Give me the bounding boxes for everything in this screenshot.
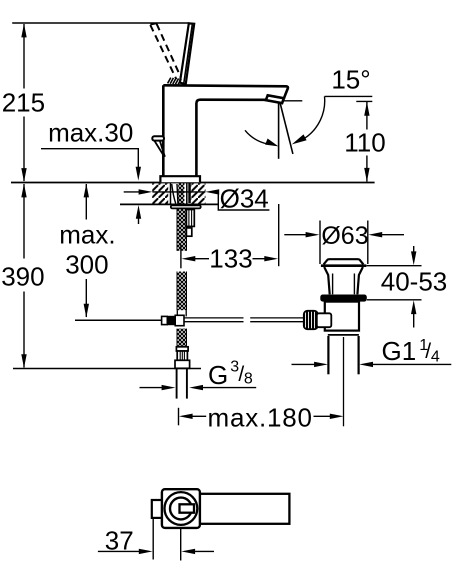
knob connector [317,313,332,327]
angle arc to vertical datum [245,130,278,146]
dimension 133 (spout projection) [181,204,279,273]
label 15 deg with underline [325,65,373,97]
svg-text:390: 390 [1,262,44,292]
water stream 15deg slant line [280,102,293,154]
lever handle (upright, solid) [180,23,194,84]
hose end reference line (390 bottom) [13,368,201,370]
mounting stud and nut [186,210,194,237]
plan view: lever slot [180,504,195,512]
faucet body block [163,85,288,176]
dimension 40-53 (clamping range) [366,246,447,328]
plan view: side tab [152,500,163,518]
plan view: outer circle [165,492,198,525]
svg-text:Ø34: Ø34 [220,184,269,214]
drain pop-up waste: centerline [343,337,345,426]
drain flange [321,264,366,267]
svg-text:15°: 15° [331,65,370,95]
horseshoe washer [171,205,201,208]
countertop deck bottom line [120,203,218,205]
svg-text:215: 215 [2,88,45,118]
aerator outlet (tilted 15deg) [266,95,284,103]
plan view: body square [162,489,200,528]
svg-text:max.: max. [59,219,115,249]
svg-text:40-53: 40-53 [381,266,448,296]
dimension G1 1/4 (waste thread) [292,336,452,367]
svg-text:133: 133 [209,243,252,273]
dimension max.180 (rod length) [179,402,344,432]
countertop deck top line [11,182,375,184]
plan view: spout from above [198,494,289,524]
counter cross-section hatch left [152,183,168,203]
water stream vertical datum line [278,102,280,159]
dimension 37 (handle offset) [98,519,214,561]
reference line: top of lever (215 datum) [12,22,189,24]
plan view: inner circle [170,498,192,520]
dimension max.30 (counter thickness) [41,117,141,224]
pop-up rod reference line (left) [75,319,162,321]
dimension 215 (height deck to lever top) [2,24,45,182]
hose G3/8 connector stack [175,347,190,369]
svg-text:Ø63: Ø63 [321,222,368,250]
drain neck [324,267,363,294]
dimension G3/8 thread [140,359,257,391]
dimension 110 (outlet height) [344,101,385,181]
svg-text:max.30: max.30 [48,117,133,147]
svg-text:300: 300 [65,249,108,279]
drain body [325,302,359,335]
pop-up rod (horizontal, with break) [184,318,304,322]
connection tube below fitting [177,368,187,398]
svg-text:G11/4: G11/4 [382,336,440,366]
dimension Ø34 (hole) with label box [124,184,270,214]
dimension Ø63 (flange) [284,221,404,265]
lever pivot hatch marks [168,78,182,85]
lever handle open position (dashed) [150,23,181,79]
mounting shank in counter hole [171,183,191,205]
dimension 390 (deck to hose end line) [1,184,44,368]
flexible supply hose middle [177,272,187,317]
svg-text:110: 110 [344,127,385,157]
pop-up rod clamp on hose [162,315,184,325]
svg-text:max.180: max.180 [208,402,313,432]
base plate / escutcheon [160,176,200,182]
drain rubber gasket (black) [320,295,367,302]
flexible supply hose (braided) upper [177,208,187,250]
counter cross-section hatch right [191,183,206,203]
side pull element on body [152,136,165,157]
drain cap dome [324,259,364,264]
dimension max. 300 (deck to pop-up rod) [59,184,115,318]
angle arc to slant line [292,96,325,144]
flexible supply hose lower [177,329,187,346]
aerator horizontal reference [283,100,302,102]
drain tailpipe [328,336,358,374]
knurled rod knob [304,311,318,329]
